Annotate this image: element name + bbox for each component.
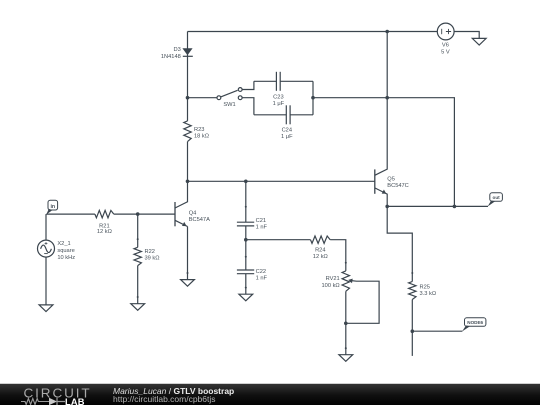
svg-text:SW1: SW1 <box>223 102 235 108</box>
svg-text:out: out <box>493 195 501 200</box>
svg-text:1 nF: 1 nF <box>256 276 268 282</box>
svg-text:V6: V6 <box>442 43 449 49</box>
svg-text:C21: C21 <box>256 218 266 224</box>
svg-text:12 kΩ: 12 kΩ <box>313 254 328 260</box>
svg-text:RV21: RV21 <box>326 276 340 282</box>
svg-text:X2_1: X2_1 <box>57 241 70 247</box>
svg-text:C24: C24 <box>282 127 292 133</box>
svg-text:R23: R23 <box>194 127 204 133</box>
svg-text:12 kΩ: 12 kΩ <box>97 229 112 235</box>
svg-text:C22: C22 <box>256 269 266 275</box>
svg-text:BC547A: BC547A <box>189 217 210 223</box>
svg-text:10 kHz: 10 kHz <box>57 255 75 261</box>
svg-text:1 μF: 1 μF <box>273 101 285 107</box>
svg-text:Q4: Q4 <box>189 211 197 217</box>
svg-text:BC547C: BC547C <box>387 183 409 189</box>
svg-text:NODE6: NODE6 <box>467 320 483 325</box>
svg-text:3.3 kΩ: 3.3 kΩ <box>420 291 437 297</box>
svg-text:R24: R24 <box>315 248 325 254</box>
svg-text:C23: C23 <box>273 94 283 100</box>
svg-text:1 nF: 1 nF <box>256 225 268 231</box>
svg-text:18 kΩ: 18 kΩ <box>194 134 209 140</box>
svg-text:in: in <box>50 204 55 210</box>
svg-text:D3: D3 <box>174 47 181 53</box>
svg-text:R25: R25 <box>420 284 430 290</box>
svg-text:R22: R22 <box>145 249 155 255</box>
svg-text:square: square <box>57 248 74 254</box>
svg-text:1 μF: 1 μF <box>281 134 293 140</box>
svg-text:39 kΩ: 39 kΩ <box>145 256 160 262</box>
svg-text:Q5: Q5 <box>387 177 395 183</box>
svg-text:1N4148: 1N4148 <box>161 54 181 60</box>
svg-text:5 V: 5 V <box>441 49 450 55</box>
svg-text:100 kΩ: 100 kΩ <box>322 283 340 289</box>
